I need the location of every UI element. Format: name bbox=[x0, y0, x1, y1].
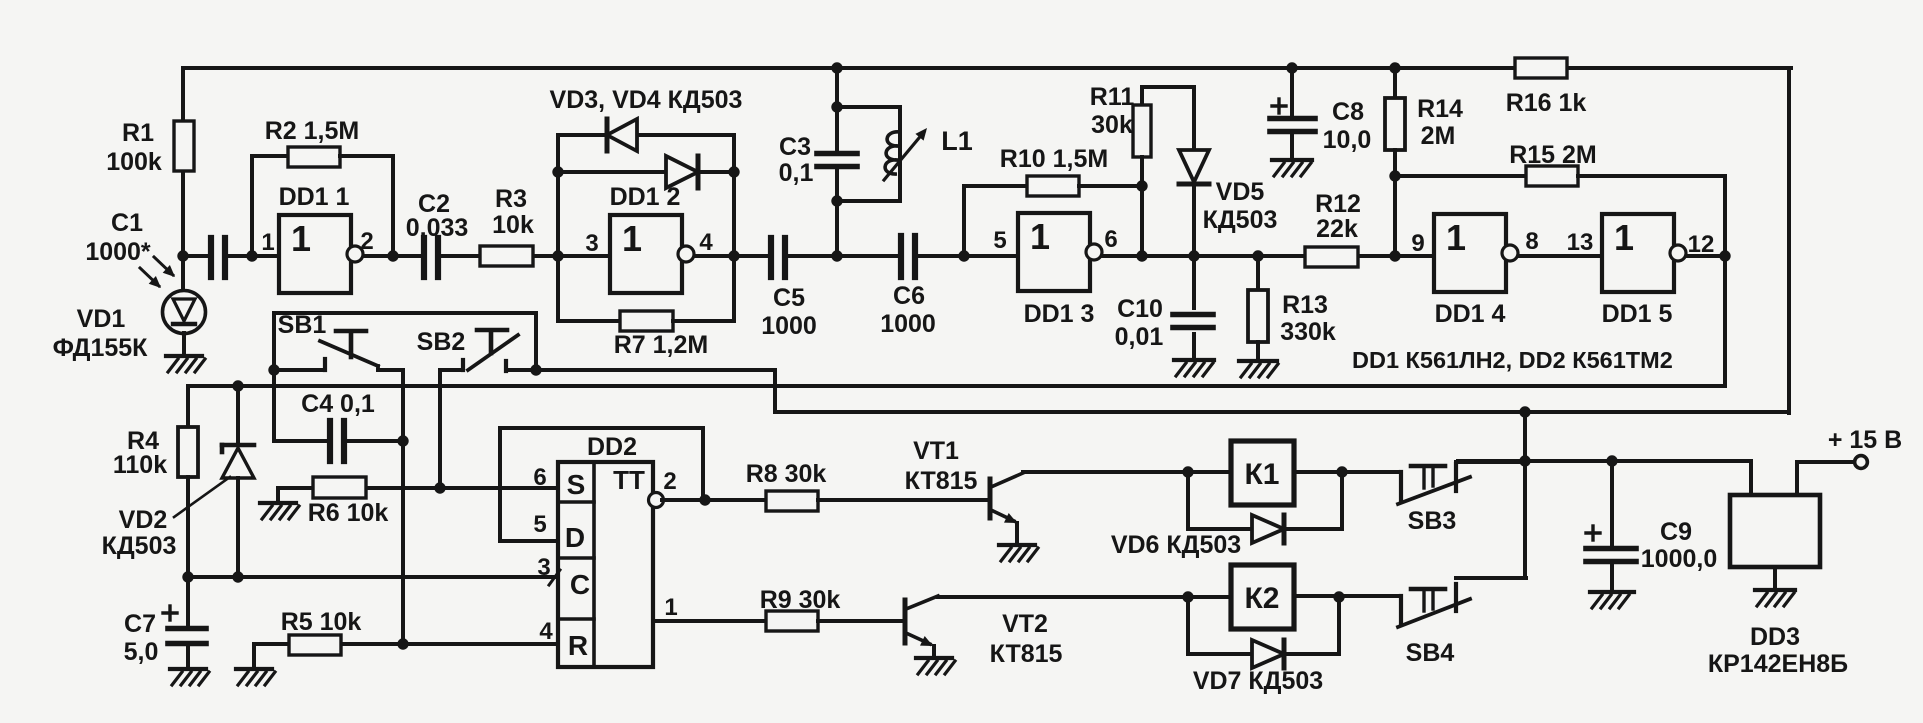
junction R5/R-wire bbox=[397, 638, 408, 649]
junction VD5 main line bbox=[1188, 250, 1199, 261]
svg-text:1: 1 bbox=[1614, 217, 1634, 258]
wire DD2 pin1 output bbox=[653, 594, 766, 621]
junction VD4 right bbox=[728, 166, 739, 177]
svg-text:R12: R12 bbox=[1315, 190, 1361, 218]
resistor R4 bbox=[113, 386, 198, 577]
resistor R9 bbox=[760, 586, 905, 631]
wire SB3/SB4 riser to feed line bbox=[1523, 412, 1527, 578]
junction VD4 left bbox=[552, 166, 563, 177]
junction VD7 right bbox=[1333, 591, 1344, 602]
svg-text:0,033: 0,033 bbox=[406, 214, 469, 242]
svg-text:SB4: SB4 bbox=[1406, 639, 1455, 667]
svg-text:1000: 1000 bbox=[761, 312, 817, 340]
svg-text:4: 4 bbox=[699, 229, 713, 256]
diode VD3 bbox=[550, 86, 743, 151]
svg-text:SB1: SB1 bbox=[278, 311, 327, 339]
svg-text:100k: 100k bbox=[106, 148, 162, 176]
svg-text:DD1 5: DD1 5 bbox=[1602, 300, 1673, 328]
junction R10 bottom bbox=[958, 250, 969, 261]
junction L1 bottom bbox=[831, 195, 842, 206]
svg-text:КР142ЕН8Б: КР142ЕН8Б bbox=[1708, 650, 1848, 678]
junction C9 top bbox=[1606, 455, 1617, 466]
ground VT2 bbox=[916, 658, 955, 674]
wire K2 right bbox=[1294, 594, 1398, 598]
transistor VT1 bbox=[905, 437, 1023, 545]
capacitor C2 bbox=[406, 190, 469, 277]
junction VD6 right bbox=[1336, 466, 1347, 477]
junction VD2 top bbox=[232, 380, 243, 391]
svg-text:C7: C7 bbox=[124, 610, 156, 638]
junction pin3 node bbox=[552, 250, 563, 261]
svg-text:10k: 10k bbox=[492, 211, 534, 239]
relay K2 bbox=[1231, 565, 1294, 629]
switch SB2 bbox=[417, 328, 536, 371]
resistor R12 bbox=[1305, 190, 1361, 267]
resistor R14 bbox=[1385, 68, 1463, 256]
svg-text:VD5: VD5 bbox=[1216, 178, 1265, 206]
junction VD7 left bbox=[1182, 591, 1193, 602]
svg-text:13: 13 bbox=[1567, 229, 1594, 256]
diode VD4 bbox=[666, 156, 698, 188]
junction C8 top bbox=[1286, 62, 1297, 73]
svg-text:12: 12 bbox=[1688, 231, 1715, 258]
resistor R2 bbox=[252, 117, 393, 256]
resistor R15 bbox=[1395, 141, 1725, 186]
svg-text:2: 2 bbox=[663, 468, 676, 495]
svg-text:R16 1k: R16 1k bbox=[1506, 89, 1587, 117]
resistor R3 bbox=[480, 185, 534, 266]
inverter gate DD1.2 bbox=[585, 183, 713, 293]
svg-text:1000: 1000 bbox=[880, 310, 936, 338]
svg-text:ФД155К: ФД155К bbox=[53, 334, 149, 362]
svg-text:DD3: DD3 bbox=[1750, 623, 1800, 651]
inductor L1 bbox=[884, 126, 973, 180]
wire VD3/VD4 right vertical bbox=[732, 135, 736, 321]
svg-text:VD2: VD2 bbox=[119, 506, 168, 534]
relay K1 bbox=[1231, 441, 1294, 505]
wire VD3/VD4 left vertical bbox=[556, 135, 560, 321]
svg-text:VD3, VD4 КД503: VD3, VD4 КД503 bbox=[550, 86, 743, 114]
zener diode VD2 bbox=[102, 386, 254, 577]
junction R14 mid R15 bbox=[1389, 170, 1400, 181]
inverter gate DD1.4 bbox=[1411, 214, 1538, 328]
wire K1 right bbox=[1294, 470, 1398, 474]
svg-text:SB3: SB3 bbox=[1408, 507, 1457, 535]
svg-text:DD1 К561ЛН2, DD2 К561ТМ2: DD1 К561ЛН2, DD2 К561ТМ2 bbox=[1352, 347, 1673, 373]
junction R14 bottom bbox=[1389, 250, 1400, 261]
svg-text:R9 30k: R9 30k bbox=[760, 586, 841, 614]
resistor R1 bbox=[106, 68, 194, 256]
svg-text:R15 2M: R15 2M bbox=[1509, 141, 1597, 169]
svg-text:R5 10k: R5 10k bbox=[281, 608, 362, 636]
inverter gate DD1.5 bbox=[1567, 214, 1715, 328]
junction R6/S-wire bbox=[434, 482, 445, 493]
junction pin12 node bbox=[1719, 250, 1730, 261]
junction R2 right bbox=[387, 250, 398, 261]
svg-text:110k: 110k bbox=[113, 451, 167, 479]
svg-text:8: 8 bbox=[1525, 228, 1538, 255]
svg-text:DD1 4: DD1 4 bbox=[1435, 300, 1506, 328]
svg-text:R14: R14 bbox=[1417, 95, 1463, 123]
svg-text:C10: C10 bbox=[1117, 295, 1163, 323]
svg-text:R7 1,2М: R7 1,2М bbox=[614, 331, 708, 359]
svg-text:1000,0: 1000,0 bbox=[1641, 545, 1717, 573]
wire feedback line (L2) from R4 to DD1.5 bbox=[188, 384, 1725, 388]
svg-text:0,01: 0,01 bbox=[1115, 323, 1164, 351]
ground R5 bbox=[236, 669, 275, 685]
inverter gate DD1.1 bbox=[261, 183, 373, 293]
label IC types bbox=[1352, 347, 1673, 373]
svg-text:6: 6 bbox=[533, 464, 546, 491]
svg-text:SB2: SB2 bbox=[417, 328, 466, 356]
capacitor C9 bbox=[1586, 461, 1717, 592]
svg-text:КТ815: КТ815 bbox=[905, 467, 978, 495]
svg-text:2: 2 bbox=[360, 228, 373, 255]
wire main signal line bbox=[183, 254, 1725, 258]
svg-text:К1: К1 bbox=[1245, 458, 1280, 491]
svg-text:1: 1 bbox=[664, 594, 677, 621]
capacitor C1 bbox=[85, 209, 225, 277]
wire relay feed line (L3) bbox=[775, 410, 1789, 414]
svg-text:L1: L1 bbox=[941, 126, 973, 156]
wire R4/VD2 to C7/DD2-C line (L4) bbox=[188, 575, 577, 579]
svg-text:R: R bbox=[568, 630, 588, 661]
wire DD2 R input / R5 line bbox=[341, 642, 558, 646]
wire SB2-left drop to S line bbox=[438, 370, 442, 488]
junction pin4 node bbox=[728, 250, 739, 261]
svg-text:1000*: 1000* bbox=[85, 238, 151, 266]
svg-text:9: 9 bbox=[1411, 230, 1424, 257]
svg-text:S: S bbox=[567, 469, 586, 500]
svg-text:C5: C5 bbox=[773, 284, 805, 312]
terminal +15V bbox=[1797, 426, 1902, 495]
junction C4 right bbox=[397, 435, 408, 446]
wire VT1 collector to K1 bbox=[1023, 470, 1231, 474]
ground VT1 bbox=[999, 545, 1038, 561]
svg-text:1: 1 bbox=[261, 229, 274, 256]
wire button common SB2-right to step bbox=[536, 368, 775, 372]
junction L1 top bbox=[831, 101, 842, 112]
ground R13 bbox=[1239, 361, 1278, 377]
junction R14 top bbox=[1389, 62, 1400, 73]
svg-text:2M: 2M bbox=[1421, 122, 1456, 150]
resistor R8 bbox=[746, 460, 990, 511]
wire DD3 input drop bbox=[1749, 461, 1753, 495]
svg-text:3: 3 bbox=[585, 230, 598, 257]
junction R13 top bbox=[1252, 250, 1263, 261]
svg-text:C9: C9 bbox=[1660, 518, 1692, 546]
svg-text:DD1 3: DD1 3 bbox=[1024, 300, 1095, 328]
resistor R16 bbox=[1506, 58, 1587, 117]
ground R6 bbox=[260, 503, 299, 519]
wire SB2-right riser bbox=[534, 313, 538, 370]
svg-text:5: 5 bbox=[993, 227, 1006, 254]
switch SB1 bbox=[274, 311, 403, 370]
wire VD4 branch bbox=[558, 170, 734, 174]
junction VD2 bottom bbox=[232, 571, 243, 582]
junction riser/+15 bus bbox=[1519, 455, 1530, 466]
junction tank top rail bbox=[831, 62, 842, 73]
svg-text:C4 0,1: C4 0,1 bbox=[301, 390, 375, 418]
svg-text:C1: C1 bbox=[111, 209, 143, 237]
svg-text:R2 1,5М: R2 1,5М bbox=[265, 117, 359, 145]
svg-text:КТ815: КТ815 bbox=[990, 640, 1063, 668]
svg-text:30k: 30k bbox=[1091, 111, 1133, 139]
resistor R10 bbox=[964, 145, 1142, 256]
wire +15V bus to DD3 bbox=[1458, 459, 1751, 463]
wire DD3 ground pin bbox=[1773, 567, 1777, 590]
wire R15 right vertical to pin12/L2 bbox=[1723, 176, 1727, 386]
junction tank main line bbox=[831, 250, 842, 261]
svg-text:VT2: VT2 bbox=[1002, 610, 1048, 638]
ground C10 bbox=[1174, 360, 1214, 376]
svg-text:КД503: КД503 bbox=[102, 532, 177, 560]
capacitor C4 bbox=[274, 390, 403, 461]
svg-text:КД503: КД503 bbox=[1203, 206, 1278, 234]
svg-text:1: 1 bbox=[622, 218, 642, 259]
svg-text:1: 1 bbox=[1446, 217, 1466, 258]
svg-text:D: D bbox=[565, 522, 585, 553]
junction DD2 pin2 loop bbox=[699, 494, 710, 505]
diode VD7 bbox=[1188, 597, 1339, 695]
junction C1/R1/VD1 node bbox=[177, 250, 188, 261]
capacitor C8 bbox=[1270, 68, 1371, 160]
svg-text:R6 10k: R6 10k bbox=[308, 499, 389, 527]
junction node B bbox=[530, 364, 541, 375]
svg-text:VD7 КД503: VD7 КД503 bbox=[1193, 667, 1323, 695]
ground C7 bbox=[170, 669, 209, 685]
inverter gate DD1.3 bbox=[993, 213, 1117, 328]
svg-text:DD1 1: DD1 1 bbox=[279, 183, 350, 211]
wire button bypass upper bbox=[275, 311, 536, 315]
svg-text:10,0: 10,0 bbox=[1323, 126, 1372, 154]
svg-text:R1: R1 bbox=[122, 119, 154, 147]
junction VD6 left bbox=[1182, 466, 1193, 477]
junction R2 left bbox=[246, 250, 257, 261]
svg-text:VT1: VT1 bbox=[913, 437, 959, 465]
svg-text:VD1: VD1 bbox=[77, 305, 126, 333]
switch SB4 bbox=[1398, 578, 1526, 667]
junction riser/feed line bbox=[1519, 406, 1530, 417]
resistor R7 bbox=[558, 311, 734, 359]
wire tank vertical bbox=[835, 68, 839, 256]
wire DD2 feedback loop bbox=[500, 428, 703, 541]
transistor VT2 bbox=[905, 596, 1063, 668]
svg-text:R10 1,5М: R10 1,5М bbox=[1000, 145, 1108, 173]
diode VD6 bbox=[1111, 472, 1342, 559]
voltage regulator DD3 bbox=[1708, 495, 1848, 678]
wire DD2 pin2 output bbox=[649, 468, 767, 508]
wire VD3 top branch bbox=[558, 133, 734, 137]
resistor R5 bbox=[254, 608, 361, 669]
svg-text:C3: C3 bbox=[779, 133, 811, 161]
svg-text:К2: К2 bbox=[1245, 582, 1280, 615]
junction node A bbox=[268, 364, 279, 375]
resistor R11 bbox=[1090, 83, 1194, 256]
svg-text:6: 6 bbox=[1104, 226, 1117, 253]
diode VD5 bbox=[1179, 87, 1277, 256]
switch SB3 bbox=[1398, 462, 1526, 535]
svg-text:R13: R13 bbox=[1282, 291, 1328, 319]
capacitor C10 bbox=[1115, 256, 1213, 360]
capacitor C3 bbox=[779, 133, 857, 187]
svg-text:R8 30k: R8 30k bbox=[746, 460, 827, 488]
ground C9 bbox=[1590, 592, 1634, 608]
junction R10/R11 bbox=[1136, 180, 1147, 191]
svg-text:5,0: 5,0 bbox=[124, 638, 159, 666]
wire right-edge drop from top rail to relay feed line bbox=[1787, 68, 1791, 413]
resistor R13 bbox=[1248, 256, 1336, 361]
svg-text:VD6 КД503: VD6 КД503 bbox=[1111, 531, 1241, 559]
ground DD3 bbox=[1755, 590, 1795, 606]
resistor R6 bbox=[278, 477, 388, 527]
flip-flop DD2 bbox=[533, 433, 653, 667]
ground C8 bbox=[1272, 160, 1312, 176]
svg-text:+ 15 В: + 15 В bbox=[1828, 426, 1902, 454]
svg-text:C6: C6 bbox=[893, 282, 925, 310]
svg-text:3: 3 bbox=[537, 554, 550, 581]
wire node A riser / C4 drop bbox=[272, 313, 276, 441]
wire SB1-right drop to DD2-R line bbox=[401, 370, 405, 644]
photodiode VD1 bbox=[53, 256, 206, 362]
svg-text:22k: 22k bbox=[1316, 215, 1358, 243]
junction R4 bottom bbox=[182, 571, 193, 582]
wire step from button common down to feed line bbox=[773, 370, 777, 412]
wire top +15V rail bbox=[183, 66, 1791, 70]
wire L1 loop bbox=[837, 107, 900, 201]
svg-text:C: C bbox=[570, 569, 590, 600]
capacitor C5 bbox=[761, 238, 817, 340]
svg-text:R3: R3 bbox=[495, 185, 527, 213]
svg-text:C8: C8 bbox=[1332, 98, 1364, 126]
capacitor C6 bbox=[880, 236, 936, 338]
svg-text:4: 4 bbox=[539, 618, 553, 645]
svg-text:R11: R11 bbox=[1090, 83, 1135, 111]
capacitor C7 bbox=[124, 577, 206, 669]
svg-text:DD2: DD2 bbox=[587, 433, 637, 461]
junction R11 bottom main line bbox=[1136, 250, 1147, 261]
svg-text:1: 1 bbox=[1030, 216, 1050, 257]
svg-text:TT: TT bbox=[613, 465, 645, 495]
svg-text:1: 1 bbox=[291, 218, 311, 259]
svg-text:330k: 330k bbox=[1280, 318, 1336, 346]
wire VT2 collector to K2 bbox=[938, 595, 1231, 599]
svg-text:0,1: 0,1 bbox=[779, 159, 814, 187]
svg-text:DD1 2: DD1 2 bbox=[610, 183, 681, 211]
ground VD1 bbox=[166, 333, 205, 372]
svg-text:5: 5 bbox=[533, 511, 546, 538]
wire DD2 S input / R6 line bbox=[278, 486, 558, 490]
